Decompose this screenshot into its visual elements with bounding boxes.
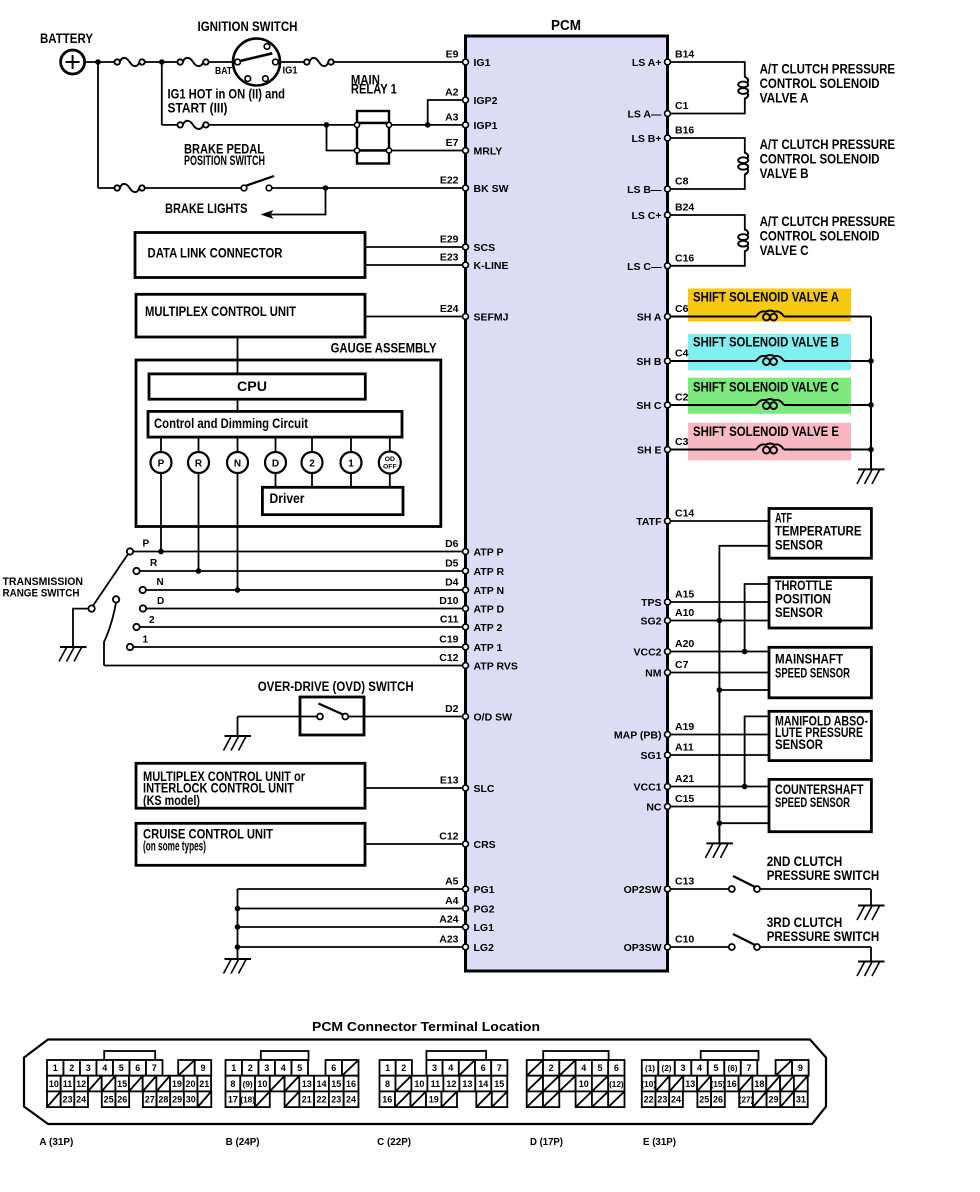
connector E cell (2) bbox=[658, 1060, 675, 1076]
svg-text:8: 8 bbox=[385, 1079, 390, 1089]
svg-text:SENSOR: SENSOR bbox=[775, 605, 823, 620]
svg-text:TATF: TATF bbox=[636, 516, 662, 528]
svg-text:6: 6 bbox=[481, 1063, 486, 1073]
contact D bbox=[140, 605, 146, 611]
svg-text:23: 23 bbox=[62, 1094, 72, 1104]
svg-text:LS B—: LS B— bbox=[627, 184, 662, 196]
wire brake lights bbox=[269, 188, 326, 215]
svg-text:3: 3 bbox=[86, 1063, 91, 1073]
svg-text:18: 18 bbox=[754, 1079, 764, 1089]
coil LC bbox=[745, 229, 748, 235]
wire P lamp to ATP P bbox=[160, 473, 162, 552]
connector A cell 5 bbox=[113, 1060, 130, 1076]
svg-text:14: 14 bbox=[478, 1079, 488, 1089]
wire CPU to control circuit bbox=[237, 399, 239, 411]
connector E cell (1) bbox=[642, 1060, 659, 1076]
svg-text:A3: A3 bbox=[445, 111, 459, 123]
wire bbox=[145, 61, 162, 63]
node mainshaft ground bbox=[717, 687, 723, 693]
wire lamp to driver bbox=[389, 473, 391, 487]
svg-text:SPEED SENSOR: SPEED SENSOR bbox=[775, 666, 850, 681]
svg-text:2ND CLUTCH: 2ND CLUTCH bbox=[767, 854, 843, 869]
svg-text:1: 1 bbox=[231, 1063, 236, 1073]
connector D cell hatched bbox=[576, 1091, 592, 1107]
pin A20 VCC2 bbox=[665, 649, 671, 655]
svg-text:GAUGE ASSEMBLY: GAUGE ASSEMBLY bbox=[331, 341, 437, 356]
svg-text:23: 23 bbox=[657, 1094, 667, 1104]
wire ATP N bbox=[146, 589, 463, 591]
connector A cell 30 bbox=[184, 1091, 198, 1107]
mainshaft speed sensor box bbox=[769, 647, 871, 698]
svg-text:RELAY 1: RELAY 1 bbox=[351, 82, 397, 97]
node countershaft ground bbox=[717, 820, 723, 826]
svg-text:27: 27 bbox=[145, 1094, 155, 1104]
svg-text:4: 4 bbox=[697, 1063, 702, 1073]
wire IG1 to PCM pin E9 bbox=[334, 61, 463, 63]
connector A cell 26 bbox=[116, 1091, 130, 1107]
pin A11 SG1 bbox=[665, 752, 671, 758]
connector C cell 10 bbox=[411, 1076, 427, 1092]
connector D cell hatched bbox=[527, 1060, 543, 1076]
connector E cell (10) bbox=[642, 1076, 656, 1092]
connector E cell hatched bbox=[656, 1076, 670, 1092]
connector A cell 19 bbox=[170, 1076, 184, 1092]
wire battery to node bbox=[85, 61, 115, 63]
connector D key tab bbox=[543, 1051, 608, 1060]
connector A cell 10 bbox=[47, 1076, 61, 1092]
svg-text:21: 21 bbox=[302, 1094, 312, 1104]
wire SG1 bbox=[671, 754, 770, 756]
battery B1 bbox=[61, 50, 85, 74]
blade to P bbox=[93, 554, 128, 606]
connector D cell hatched bbox=[543, 1091, 559, 1107]
svg-text:C3: C3 bbox=[675, 436, 689, 448]
svg-text:E7: E7 bbox=[446, 137, 459, 149]
svg-text:26: 26 bbox=[713, 1094, 723, 1104]
wire IG1 to fuse bbox=[278, 61, 304, 63]
svg-text:21: 21 bbox=[199, 1079, 209, 1089]
svg-text:A20: A20 bbox=[675, 638, 694, 650]
connector C cell 6 bbox=[475, 1060, 491, 1076]
connector A cell hatched bbox=[47, 1091, 61, 1107]
PCM module U1 bbox=[466, 36, 668, 971]
svg-text:C13: C13 bbox=[675, 876, 694, 888]
svg-text:A15: A15 bbox=[675, 589, 694, 601]
svg-text:(2): (2) bbox=[662, 1064, 672, 1073]
pin D5 ATP R bbox=[463, 568, 469, 574]
pin E9 IG1 bbox=[463, 59, 469, 65]
indicator lamp P bbox=[160, 437, 162, 452]
svg-text:VALVE B: VALVE B bbox=[760, 166, 809, 181]
svg-text:A/T CLUTCH PRESSURE: A/T CLUTCH PRESSURE bbox=[760, 61, 896, 76]
pin B16 LS B+ bbox=[665, 135, 671, 141]
svg-text:29: 29 bbox=[172, 1094, 182, 1104]
A/T clutch pressure control solenoid valve A loop bbox=[671, 62, 745, 78]
svg-text:C (22P): C (22P) bbox=[377, 1136, 411, 1148]
svg-text:A21: A21 bbox=[675, 773, 694, 785]
connector C cell hatched bbox=[442, 1091, 458, 1107]
connector C cell 2 bbox=[396, 1060, 412, 1076]
svg-text:24: 24 bbox=[76, 1094, 86, 1104]
node LG2 bbox=[235, 944, 241, 950]
svg-text:SHIFT SOLENOID VALVE B: SHIFT SOLENOID VALVE B bbox=[693, 335, 839, 350]
svg-text:D10: D10 bbox=[439, 595, 458, 607]
svg-text:LG2: LG2 bbox=[474, 942, 495, 954]
svg-text:CPU: CPU bbox=[237, 379, 267, 394]
pin C16 LS C— bbox=[665, 263, 671, 269]
connector C cell hatched bbox=[395, 1091, 411, 1107]
pin A3 IGP1 bbox=[463, 122, 469, 128]
svg-text:B24: B24 bbox=[675, 202, 694, 214]
contact N bbox=[140, 587, 146, 593]
connector E cell 23 bbox=[656, 1091, 670, 1107]
svg-text:A2: A2 bbox=[445, 87, 459, 99]
pin A23 LG2 bbox=[463, 944, 469, 950]
wire ATP 2 bbox=[140, 626, 463, 628]
pin C10 OP3SW bbox=[665, 944, 671, 950]
svg-text:(on some types): (on some types) bbox=[143, 839, 206, 854]
data link connector box bbox=[135, 233, 365, 278]
svg-text:25: 25 bbox=[699, 1094, 709, 1104]
svg-text:E29: E29 bbox=[440, 234, 459, 246]
pin A4 PG2 bbox=[463, 906, 469, 912]
svg-text:C4: C4 bbox=[675, 348, 689, 360]
svg-text:(18): (18) bbox=[240, 1095, 255, 1104]
connector D cell hatched bbox=[559, 1060, 575, 1076]
indicator lamp 1 bbox=[350, 437, 352, 452]
wire battery down to brake line bbox=[97, 62, 99, 188]
svg-text:SH C: SH C bbox=[636, 400, 662, 412]
svg-text:9: 9 bbox=[798, 1063, 803, 1073]
svg-text:C1: C1 bbox=[675, 100, 689, 112]
wire SH A bbox=[671, 316, 757, 318]
connector C cell 3 bbox=[426, 1060, 442, 1076]
indicator lamp R bbox=[198, 437, 200, 452]
shift solenoid valve E highlight bbox=[688, 423, 851, 461]
connector B cell 3 bbox=[259, 1060, 276, 1076]
wire pole1 to ground bbox=[73, 609, 88, 647]
contact 1 bbox=[127, 644, 133, 650]
fuse F2 bbox=[178, 59, 183, 64]
node A2 tap bbox=[425, 122, 431, 128]
connector E cell hatched bbox=[739, 1076, 753, 1092]
svg-text:10: 10 bbox=[579, 1079, 589, 1089]
svg-text:3: 3 bbox=[681, 1063, 686, 1073]
svg-text:7: 7 bbox=[497, 1063, 502, 1073]
connector B cell hatched bbox=[270, 1076, 285, 1092]
svg-text:SH E: SH E bbox=[637, 445, 662, 457]
svg-text:VALVE A: VALVE A bbox=[760, 90, 809, 105]
svg-text:ATP N: ATP N bbox=[474, 585, 505, 597]
connector E cell 13 bbox=[683, 1076, 697, 1092]
ground 2nd clutch bbox=[858, 905, 885, 907]
svg-text:N: N bbox=[234, 458, 241, 469]
pin E22 BK SW bbox=[463, 185, 469, 191]
connector A cell 11 bbox=[61, 1076, 75, 1092]
wire TATF bbox=[671, 520, 770, 522]
svg-text:SLC: SLC bbox=[474, 783, 495, 795]
svg-text:D2: D2 bbox=[445, 703, 459, 715]
indicator lamp 2 bbox=[311, 437, 313, 452]
svg-text:ATP 2: ATP 2 bbox=[474, 622, 503, 634]
wire MAP VCC1 branch bbox=[745, 716, 769, 786]
svg-text:PCM: PCM bbox=[551, 18, 581, 34]
svg-text:D6: D6 bbox=[445, 538, 459, 550]
connector D cell hatched bbox=[592, 1076, 608, 1092]
svg-text:CONTROL SOLENOID: CONTROL SOLENOID bbox=[760, 228, 880, 243]
ground shift solenoids bbox=[858, 468, 885, 470]
svg-text:25: 25 bbox=[104, 1094, 114, 1104]
svg-text:D5: D5 bbox=[445, 558, 459, 570]
connector B cell 22 bbox=[314, 1091, 329, 1107]
svg-text:MULTIPLEX CONTROL UNIT: MULTIPLEX CONTROL UNIT bbox=[145, 304, 297, 319]
pin D6 ATP P bbox=[463, 549, 469, 555]
pin C3 SH E bbox=[665, 447, 671, 453]
connector D cell 10 bbox=[576, 1076, 592, 1092]
svg-text:C15: C15 bbox=[675, 793, 694, 805]
pin C8 LS B— bbox=[665, 186, 671, 192]
node SH E bbox=[868, 447, 874, 453]
svg-text:(15): (15) bbox=[711, 1080, 726, 1089]
connector E cell hatched bbox=[780, 1076, 794, 1092]
svg-text:C8: C8 bbox=[675, 176, 689, 188]
connector B cell 17 bbox=[226, 1091, 241, 1107]
svg-text:9: 9 bbox=[200, 1063, 205, 1073]
svg-text:16: 16 bbox=[382, 1094, 392, 1104]
svg-text:PG2: PG2 bbox=[474, 904, 495, 916]
connector B cell 23 bbox=[329, 1091, 344, 1107]
connector B cell 10 bbox=[255, 1076, 270, 1092]
pin C4 SH B bbox=[665, 358, 671, 364]
svg-text:LS A+: LS A+ bbox=[632, 57, 662, 69]
wire VCC1 bbox=[671, 786, 770, 788]
connector A cell 7 bbox=[146, 1060, 163, 1076]
wire to ignition switch bbox=[163, 61, 178, 63]
wire MAP bbox=[671, 734, 770, 736]
countershaft speed sensor box bbox=[769, 779, 871, 831]
fuse F4 bbox=[178, 122, 183, 127]
connector A cell hatched bbox=[143, 1076, 157, 1092]
indicator lamp OD OFF bbox=[389, 437, 391, 452]
svg-text:(9): (9) bbox=[243, 1080, 253, 1089]
svg-text:15: 15 bbox=[494, 1079, 504, 1089]
svg-text:D (17P): D (17P) bbox=[530, 1136, 563, 1148]
contact 2 bbox=[133, 624, 139, 630]
connector E cell 18 bbox=[752, 1076, 766, 1092]
wire lamp to driver bbox=[275, 473, 277, 487]
pin A5 PG1 bbox=[463, 886, 469, 892]
pin C7 NM bbox=[665, 670, 671, 676]
pin E24 SEFMJ bbox=[463, 314, 469, 320]
wire R lamp to ATP R bbox=[198, 473, 200, 571]
connector A cell 12 bbox=[74, 1076, 88, 1092]
multiplex interlock control unit box bbox=[136, 763, 365, 808]
svg-text:E13: E13 bbox=[440, 775, 459, 787]
node SH C bbox=[868, 402, 874, 408]
wire OVD to D2 bbox=[348, 716, 462, 718]
svg-text:2: 2 bbox=[309, 458, 315, 469]
connector E cell 22 bbox=[642, 1091, 656, 1107]
svg-text:P: P bbox=[158, 458, 165, 469]
wire SH B bbox=[671, 360, 757, 362]
pin C2 SH C bbox=[665, 402, 671, 408]
connector B cell 5 bbox=[292, 1060, 309, 1076]
connector B cell 15 bbox=[329, 1076, 344, 1092]
pin C12 ATP RVS bbox=[463, 663, 469, 669]
svg-text:10: 10 bbox=[257, 1079, 267, 1089]
wire SLC bbox=[365, 787, 463, 789]
svg-text:VALVE C: VALVE C bbox=[760, 243, 809, 258]
svg-text:2: 2 bbox=[401, 1063, 406, 1073]
wire TPS VCC branch bbox=[745, 584, 769, 652]
svg-text:N: N bbox=[157, 577, 164, 588]
node VCC1 branch bbox=[742, 784, 748, 790]
svg-text:BRAKE LIGHTS: BRAKE LIGHTS bbox=[165, 201, 248, 216]
svg-text:LS A—: LS A— bbox=[627, 109, 662, 121]
connector housing outline bbox=[24, 1040, 826, 1125]
svg-text:POSITION SWITCH: POSITION SWITCH bbox=[184, 153, 265, 168]
wire to relay bbox=[209, 124, 355, 126]
svg-text:1: 1 bbox=[348, 458, 354, 469]
svg-text:R: R bbox=[150, 558, 158, 569]
svg-text:D: D bbox=[157, 596, 164, 607]
connector E cell 5 bbox=[708, 1060, 725, 1076]
connector B cell 8 bbox=[226, 1076, 241, 1092]
pin A19 MAP (PB) bbox=[665, 732, 671, 738]
manifold absolute pressure sensor box bbox=[769, 711, 871, 760]
pin C15 NC bbox=[665, 804, 671, 810]
coil LA bbox=[745, 77, 748, 83]
svg-text:A23: A23 bbox=[439, 934, 458, 946]
svg-text:13: 13 bbox=[685, 1079, 695, 1089]
connector C cell 16 bbox=[380, 1091, 396, 1107]
multiplex control unit box bbox=[136, 294, 365, 337]
connector A cell 29 bbox=[170, 1091, 184, 1107]
connector E cell hatched bbox=[697, 1076, 711, 1092]
fuse F3 bbox=[304, 59, 309, 64]
svg-text:SH A: SH A bbox=[637, 312, 662, 324]
svg-text:1: 1 bbox=[53, 1063, 58, 1073]
connector E cell hatched bbox=[794, 1076, 808, 1092]
connector B cell (18) bbox=[240, 1091, 255, 1107]
connector C cell 19 bbox=[426, 1091, 442, 1107]
svg-text:MRLY: MRLY bbox=[474, 146, 503, 158]
connector A key tab bbox=[104, 1051, 155, 1060]
svg-text:OD: OD bbox=[385, 456, 395, 463]
indicator lamp D bbox=[275, 437, 277, 452]
svg-text:4: 4 bbox=[102, 1063, 107, 1073]
svg-text:(10): (10) bbox=[641, 1080, 656, 1089]
svg-text:VCC1: VCC1 bbox=[633, 782, 661, 794]
svg-text:TRANSMISSION: TRANSMISSION bbox=[3, 576, 84, 588]
indicator lamp N bbox=[237, 437, 239, 452]
svg-text:15: 15 bbox=[117, 1079, 127, 1089]
connector D cell hatched bbox=[527, 1091, 543, 1107]
svg-text:6: 6 bbox=[331, 1063, 336, 1073]
pin A2 IGP2 bbox=[463, 97, 469, 103]
svg-text:2: 2 bbox=[69, 1063, 74, 1073]
svg-text:(6): (6) bbox=[728, 1064, 738, 1073]
svg-text:6: 6 bbox=[135, 1063, 140, 1073]
svg-text:14: 14 bbox=[316, 1079, 326, 1089]
node PG2 bbox=[235, 906, 241, 912]
node VCC2 branch bbox=[742, 649, 748, 655]
wire SEFMJ bbox=[365, 316, 463, 318]
svg-text:3RD CLUTCH: 3RD CLUTCH bbox=[767, 915, 843, 930]
connector E cell 9 bbox=[792, 1060, 809, 1076]
svg-text:D: D bbox=[272, 458, 279, 469]
svg-text:29: 29 bbox=[768, 1094, 778, 1104]
svg-text:SHIFT SOLENOID VALVE A: SHIFT SOLENOID VALVE A bbox=[693, 290, 839, 305]
connector E cell 7 bbox=[741, 1060, 758, 1076]
connector A cell 9 bbox=[195, 1060, 212, 1076]
svg-text:E9: E9 bbox=[446, 49, 459, 61]
svg-text:10: 10 bbox=[414, 1079, 424, 1089]
connector C key tab bbox=[426, 1051, 486, 1060]
svg-text:SG2: SG2 bbox=[640, 616, 661, 628]
svg-text:RANGE SWITCH: RANGE SWITCH bbox=[3, 588, 80, 600]
svg-text:P: P bbox=[143, 539, 150, 550]
wire SH E bbox=[671, 449, 757, 451]
connector E cell hatched bbox=[780, 1091, 794, 1107]
fuse F5 bbox=[115, 185, 120, 190]
svg-text:SH B: SH B bbox=[636, 356, 662, 368]
wire countershaft to sensor-ground bus bbox=[719, 822, 769, 824]
svg-text:7: 7 bbox=[747, 1063, 752, 1073]
connector C cell 4 bbox=[443, 1060, 459, 1076]
svg-text:1: 1 bbox=[143, 635, 149, 646]
pin C1 LS A— bbox=[665, 111, 671, 117]
wire SCS bbox=[365, 246, 463, 248]
svg-text:E (31P): E (31P) bbox=[643, 1136, 676, 1148]
svg-text:MAINSHAFT: MAINSHAFT bbox=[775, 652, 844, 667]
wire ATP 1 bbox=[133, 646, 462, 648]
connector C cell 13 bbox=[459, 1076, 475, 1092]
svg-text:E23: E23 bbox=[440, 252, 459, 264]
connector E key tab bbox=[701, 1051, 759, 1060]
pin A15 TPS bbox=[665, 599, 671, 605]
svg-text:3: 3 bbox=[264, 1063, 269, 1073]
svg-text:(27): (27) bbox=[739, 1095, 754, 1104]
svg-text:ATP 1: ATP 1 bbox=[474, 642, 503, 654]
svg-text:SPEED SENSOR: SPEED SENSOR bbox=[775, 795, 850, 810]
pin C19 ATP 1 bbox=[463, 644, 469, 650]
connector D cell 5 bbox=[592, 1060, 608, 1076]
connector D cell 6 bbox=[608, 1060, 624, 1076]
wire SH C bbox=[671, 404, 757, 406]
connector C cell 14 bbox=[475, 1076, 491, 1092]
svg-text:ATP RVS: ATP RVS bbox=[474, 661, 518, 673]
wire relay coil feed bbox=[327, 125, 355, 151]
connector D cell hatched bbox=[608, 1091, 624, 1107]
connector E cell hatched bbox=[776, 1060, 793, 1076]
wire ATP D bbox=[146, 608, 462, 610]
connector A cell hatched bbox=[129, 1076, 143, 1092]
connector B key tab bbox=[261, 1051, 309, 1060]
pin B24 LS C+ bbox=[665, 212, 671, 218]
connector E cell hatched bbox=[753, 1091, 767, 1107]
node ATP P lamp bbox=[158, 549, 164, 555]
wire shift solenoid ground bus bbox=[870, 317, 872, 470]
wire NC bbox=[671, 806, 770, 808]
connector A cell hatched bbox=[156, 1076, 170, 1092]
svg-text:ATP R: ATP R bbox=[474, 566, 505, 578]
svg-text:VCC2: VCC2 bbox=[633, 647, 661, 659]
svg-text:NM: NM bbox=[645, 668, 662, 680]
connector A cell hatched bbox=[178, 1060, 195, 1076]
svg-text:PCM Connector Terminal Locatio: PCM Connector Terminal Location bbox=[312, 1019, 540, 1034]
connector E cell 3 bbox=[675, 1060, 692, 1076]
